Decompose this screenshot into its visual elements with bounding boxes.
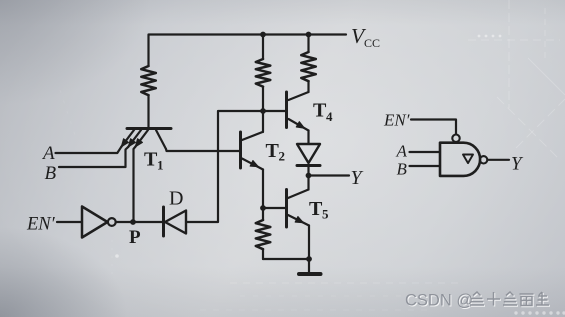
wire: rail to R3 <box>307 35 309 53</box>
wire: node to T5 base <box>263 207 285 209</box>
wire: R3 to T4 collector <box>307 81 309 92</box>
gate symbol: tri-state NAND body <box>440 143 480 176</box>
wire: T5 collector to Y node <box>307 176 309 190</box>
node P <box>130 219 136 225</box>
gate EN' wire <box>411 120 456 135</box>
diode D2 output level-shifter <box>297 144 320 176</box>
wire: R1 to T1 base <box>147 95 149 127</box>
画 <box>520 294 534 306</box>
生 <box>536 292 549 305</box>
wire: EN' input <box>57 221 82 223</box>
gate output Y wire <box>488 159 510 161</box>
wire: rail to R2 <box>262 35 264 60</box>
label T1 <box>144 149 164 173</box>
wire: R4 to ground node <box>263 258 309 260</box>
wire: diode D anode riser to node <box>186 111 260 222</box>
diode D <box>133 207 186 236</box>
inverter EN buffer <box>82 207 116 238</box>
gate input B wire <box>410 165 441 167</box>
node: ground junction <box>306 256 312 262</box>
wire: node to T4 base <box>263 110 285 112</box>
wire: output Y <box>309 174 350 176</box>
transistor T4 <box>287 92 309 131</box>
wire: input B <box>59 147 128 167</box>
junction: rail-R2 <box>260 32 266 38</box>
wire: R2 to T4-base node <box>262 87 264 111</box>
svg-text:CSDN @: CSDN @ <box>405 292 473 310</box>
resistor R4 <box>256 208 271 259</box>
wire: T5 emitter to ground node <box>308 226 310 260</box>
faint dot row under watermark <box>115 35 565 315</box>
wire: T2 collector to node <box>262 111 264 132</box>
wire: VCC rail <box>149 33 346 35</box>
gate tri-state triangle <box>463 155 473 164</box>
transistor T5 <box>287 190 310 228</box>
wire: T4 emitter to diode D2 <box>307 131 309 144</box>
wire: rail to R1 <box>147 35 149 67</box>
transistor T1 <box>121 129 171 150</box>
gate EN bubble <box>452 135 459 142</box>
node: output Y junction <box>306 173 312 179</box>
resistor R3 <box>301 52 316 81</box>
十 <box>487 292 500 306</box>
transistor T2 <box>241 132 264 170</box>
wire: T2 emitter to T5-base node <box>262 170 264 209</box>
junction: rail-R3 <box>306 32 312 38</box>
gate input A wire <box>410 151 441 153</box>
node: T4 base junction <box>260 108 266 114</box>
resistor R2 <box>256 59 271 87</box>
label T5 <box>309 198 329 222</box>
node: T5 base junction <box>260 205 266 211</box>
ground <box>299 259 321 274</box>
wire: T1 emitter3 to node P <box>134 147 136 222</box>
叁 <box>503 292 517 305</box>
wire: input A <box>56 147 122 153</box>
label T4 <box>313 100 333 125</box>
叁 <box>470 292 484 305</box>
gate output bubble <box>480 156 487 163</box>
wire: inverter to node P <box>116 221 133 223</box>
wire: T1 collector to T2 base <box>166 149 240 151</box>
power VCC label <box>351 24 380 50</box>
resistor R1 <box>141 66 156 95</box>
label T2 <box>266 140 286 164</box>
